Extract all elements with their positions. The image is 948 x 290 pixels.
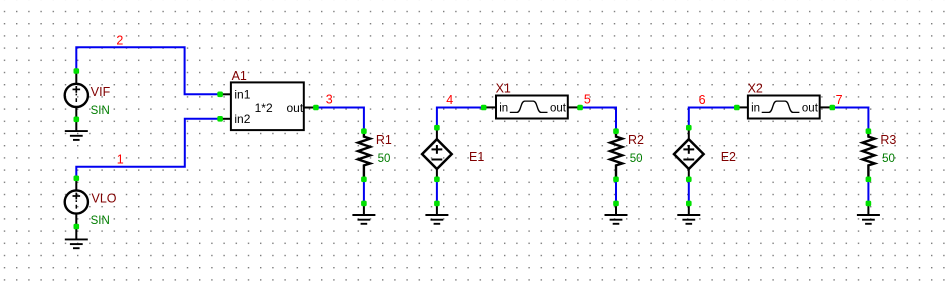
node dot R2 bottom: [613, 177, 619, 183]
svg-text:R2: R2: [628, 133, 644, 147]
svg-text:R1: R1: [376, 133, 392, 147]
wire net 5 (X1 out to R2): [580, 108, 616, 132]
node dot R3 bottom: [866, 177, 872, 183]
ground below R1: [352, 203, 375, 223]
node dot net6 at E2: [686, 125, 692, 131]
svg-text:7: 7: [836, 93, 843, 107]
svg-text:3: 3: [326, 93, 333, 107]
svg-text:A1: A1: [232, 69, 247, 83]
wire net 4 (E1 to X1 in): [437, 108, 484, 128]
node dot net3 at A1 out: [313, 105, 319, 111]
multiplier A1: [220, 69, 316, 130]
svg-text:50: 50: [882, 153, 895, 165]
svg-text:R3: R3: [880, 133, 896, 147]
svg-text:E1: E1: [469, 150, 484, 164]
resistor R2: [610, 131, 644, 179]
ground below E2: [677, 203, 700, 223]
resistor R1: [358, 131, 392, 179]
ground below R2: [605, 203, 628, 223]
node dot E2 bottom: [686, 177, 692, 183]
svg-text:E2: E2: [721, 150, 736, 164]
node dot R2 ground: [613, 201, 619, 207]
svg-text:1*2: 1*2: [255, 101, 273, 115]
svg-text:5: 5: [584, 93, 591, 107]
resistor R3: [863, 131, 897, 179]
wire net 1 (VLO to A1 in2): [76, 119, 220, 179]
svg-text:2: 2: [116, 33, 123, 47]
node dot net1 at in2: [217, 116, 223, 122]
svg-text:4: 4: [446, 93, 453, 107]
svg-text:X1: X1: [496, 81, 511, 95]
svg-text:X2: X2: [748, 81, 763, 95]
node dot E1 ground: [434, 201, 440, 207]
wire net 3 (A1 out to R1): [316, 108, 364, 132]
node dot R1 ground: [361, 201, 367, 207]
ground below E1: [425, 203, 448, 223]
node dot net5 at R2: [613, 128, 619, 134]
node dot VIF bottom: [74, 117, 80, 123]
node dot net7 at X2 out: [830, 105, 836, 111]
ground below R3: [857, 203, 880, 223]
node dot E1 bottom: [434, 177, 440, 183]
svg-text:1: 1: [117, 153, 124, 167]
svg-text:SIN: SIN: [91, 105, 110, 117]
node dot net2 at in1: [217, 92, 223, 98]
voltage source VLO: [65, 178, 117, 227]
wire net 6 (E2 to X2 in): [689, 108, 737, 128]
svg-text:out: out: [287, 101, 304, 115]
node dot net7 at R3: [866, 128, 872, 134]
wire net 7 (X2 out to R3): [832, 108, 868, 132]
svg-text:SIN: SIN: [91, 215, 110, 227]
controlled source E2: [674, 128, 736, 180]
node dot net4 at X1 in: [481, 105, 487, 111]
node dot VLO bottom: [74, 224, 80, 230]
node dot net4 at E1: [434, 125, 440, 131]
node dot R1 bottom: [361, 177, 367, 183]
node dot net2 at VIF: [74, 68, 80, 74]
wire E2 bottom to ground: [688, 179, 690, 203]
wire R3 bottom to ground: [867, 179, 869, 203]
wire R2 bottom to ground: [615, 179, 617, 203]
node dot net1 at VLO: [74, 176, 80, 182]
filter block X2: [736, 81, 832, 118]
svg-text:50: 50: [630, 153, 643, 165]
svg-text:6: 6: [699, 93, 706, 107]
svg-text:in1: in1: [234, 88, 250, 102]
svg-text:VLO: VLO: [92, 192, 117, 206]
voltage source VIF: [65, 71, 111, 119]
wire R1 bottom to ground: [363, 179, 365, 203]
ground below VLO: [65, 227, 88, 249]
ground below VIF: [65, 119, 88, 140]
wire E1 bottom to ground: [436, 179, 438, 203]
node dot E2 ground: [686, 201, 692, 207]
node dot net5 at X1 out: [577, 105, 583, 111]
svg-text:VIF: VIF: [91, 85, 111, 99]
node dot net6 at X2 in: [734, 105, 740, 111]
wire net 2 (VIF to A1 in1): [76, 47, 220, 94]
node dot R3 ground: [866, 201, 872, 207]
node dot net3 at R1: [361, 128, 367, 134]
svg-text:50: 50: [378, 153, 391, 165]
svg-text:in2: in2: [234, 112, 250, 126]
controlled source E1: [422, 128, 484, 180]
filter block X1: [484, 81, 580, 118]
